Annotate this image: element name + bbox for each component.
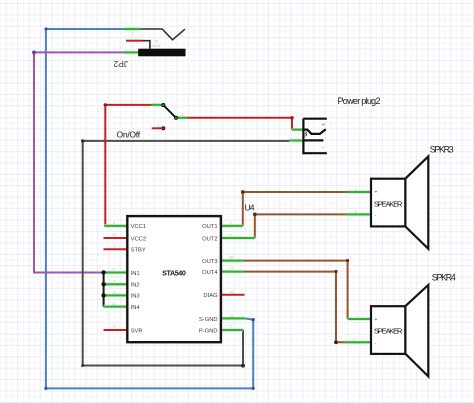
svg-text:1: 1 xyxy=(230,221,232,225)
svg-text:1: 1 xyxy=(132,44,134,48)
svg-text:6: 6 xyxy=(231,325,233,329)
svg-text:IN1: IN1 xyxy=(131,271,140,277)
svg-text:8: 8 xyxy=(114,325,116,329)
svg-text:Power plug2: Power plug2 xyxy=(338,96,381,106)
svg-text:DIAG: DIAG xyxy=(203,293,218,299)
svg-text:On/Off: On/Off xyxy=(117,130,141,140)
svg-text:OUT4: OUT4 xyxy=(202,270,218,276)
svg-text:STBY: STBY xyxy=(131,248,146,254)
svg-text:SVR: SVR xyxy=(131,328,143,334)
svg-text:9: 9 xyxy=(231,314,233,318)
svg-text:P-GND: P-GND xyxy=(199,328,218,334)
svg-text:1: 1 xyxy=(355,187,357,191)
svg-text:IN3: IN3 xyxy=(131,294,140,300)
svg-text:SPEAKER: SPEAKER xyxy=(374,199,403,208)
svg-text:1: 1 xyxy=(158,124,160,128)
svg-text:1: 1 xyxy=(356,314,358,318)
svg-text:IN2: IN2 xyxy=(131,283,140,289)
svg-text:tip: tip xyxy=(155,39,159,43)
svg-text:7: 7 xyxy=(114,244,116,248)
svg-text:SPKR3: SPKR3 xyxy=(430,145,454,155)
svg-text:SPEAKER: SPEAKER xyxy=(374,327,403,336)
svg-text:10: 10 xyxy=(230,290,234,294)
svg-text:S-GND: S-GND xyxy=(199,317,218,323)
svg-text:15: 15 xyxy=(229,256,233,260)
svg-text:OUT2: OUT2 xyxy=(202,236,217,242)
svg-text:5: 5 xyxy=(114,280,116,284)
svg-text:1: 1 xyxy=(132,32,134,36)
svg-text:OUT1: OUT1 xyxy=(202,224,217,230)
svg-text:2: 2 xyxy=(353,338,355,342)
svg-text:3: 3 xyxy=(113,221,115,225)
svg-text:+: + xyxy=(375,190,378,196)
svg-text:JP2: JP2 xyxy=(113,59,128,69)
svg-text:+: + xyxy=(375,317,378,323)
svg-text:OUT3: OUT3 xyxy=(202,259,217,265)
svg-text:12: 12 xyxy=(112,291,116,295)
svg-text:14: 14 xyxy=(229,267,233,271)
svg-text:U4: U4 xyxy=(245,203,255,213)
svg-text:13: 13 xyxy=(112,233,116,237)
svg-text:2: 2 xyxy=(230,233,232,237)
svg-text:STA540: STA540 xyxy=(162,268,186,277)
svg-text:sleeve: sleeve xyxy=(151,44,160,48)
svg-text:IN4: IN4 xyxy=(131,305,141,311)
svg-text:VCC1: VCC1 xyxy=(131,224,146,230)
svg-text:2: 2 xyxy=(181,113,183,117)
svg-text:2: 2 xyxy=(355,210,357,214)
svg-text:VCC2: VCC2 xyxy=(131,236,146,242)
svg-text:4: 4 xyxy=(113,268,115,272)
svg-text:11: 11 xyxy=(112,302,116,306)
svg-text:+: + xyxy=(321,122,325,128)
svg-text:-: - xyxy=(322,145,324,151)
svg-text:SPKR4: SPKR4 xyxy=(432,273,456,283)
